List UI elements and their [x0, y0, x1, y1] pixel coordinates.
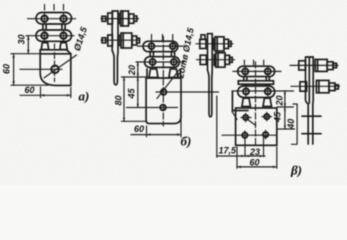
- plate hole a): [51, 66, 59, 74]
- dimension 60 (v, bottom): [237, 147, 277, 168]
- hole B2-2: [171, 59, 177, 65]
- bolt head row2 (side v): [300, 82, 307, 91]
- hole B1-1: [149, 43, 155, 49]
- dimension 60 (a, bottom): [20, 87, 71, 98]
- dimension 45 (b): [137, 77, 139, 108]
- svg-text:45: 45: [272, 111, 282, 123]
- centerline bar B2 / ext for dim 20: [136, 61, 184, 63]
- hole centerline b) upper: [156, 91, 219, 93]
- far nut row1 (side a): [102, 16, 106, 21]
- band edge ticks b): [147, 69, 181, 77]
- dimension 45 (v, right): [284, 107, 286, 129]
- plate v) left tab edge: [232, 91, 248, 110]
- plate hole v) up-left: [243, 115, 248, 120]
- bolt axis 2 (side v): [291, 85, 340, 87]
- strip mid line (side v): [308, 57, 310, 103]
- nut row1 (side b): [224, 39, 229, 48]
- centerline bar A1: [28, 18, 76, 20]
- bolt tip row2 (side v): [335, 85, 338, 89]
- nut left under bar A2: [41, 43, 49, 50]
- bolt tip row1 (side b): [229, 41, 232, 46]
- leader marks v): [232, 111, 256, 125]
- hole A1-2: [60, 16, 66, 22]
- hole C1-2: [265, 68, 271, 74]
- plate a) outline: [40, 50, 71, 86]
- svg-text:20: 20: [127, 65, 137, 76]
- plate hole v) up-right: [264, 114, 269, 119]
- paper noise: [0, 0, 1, 1]
- dimension 20 (b): [137, 62, 139, 77]
- plate hole b) lower: [160, 105, 166, 111]
- washer line in block row2 (side v): [318, 80, 320, 92]
- nut row1 (side v): [327, 62, 333, 70]
- head washer row1 (side b): [201, 35, 205, 40]
- dimension 30 (a, left): [27, 36, 29, 54]
- bolt shanks between bars C: [244, 77, 269, 86]
- dimension 80 (b): [123, 77, 125, 121]
- svg-text:60: 60: [250, 157, 260, 167]
- extension lines b) left: [122, 77, 147, 121]
- break tick 2 (side v): [302, 133, 321, 135]
- dimension 60 (a, left): [13, 54, 15, 85]
- svg-text:20: 20: [274, 95, 284, 106]
- hole ticks bars B: [152, 42, 174, 67]
- washer row1 (side b): [212, 39, 214, 50]
- hole C1-1: [242, 68, 248, 74]
- washer line in block row2: [122, 33, 124, 48]
- svg-text:17,5: 17,5: [219, 146, 238, 156]
- plate centerline vertical b): [162, 37, 164, 127]
- plate strip (side a): [112, 11, 118, 85]
- washer row2 (side b): [213, 55, 215, 66]
- bar B1: [143, 41, 178, 52]
- bolt head row1 (side a): [108, 13, 113, 24]
- hole centerline b) lower: [127, 107, 178, 109]
- bolt head row2 (side a): [108, 35, 113, 46]
- extension lines a) left: [11, 54, 48, 85]
- plate centerline vertical a): [54, 44, 56, 82]
- svg-text:60: 60: [134, 124, 144, 134]
- washer line in block row2 (side b): [217, 53, 219, 67]
- bar block row1 (side a): [121, 11, 129, 26]
- leader to note b): [157, 70, 180, 99]
- lower holes centerline v): [222, 134, 277, 136]
- bar A2 (lower busbar, view a): [36, 30, 72, 41]
- bolt shanks between bars B: [150, 51, 174, 56]
- bar C2: [238, 86, 275, 97]
- bolt tip row2 (side b): [230, 57, 233, 62]
- far nut row2 (side a): [102, 38, 106, 43]
- centerline bar C2 / ext for dim 20: [232, 90, 294, 92]
- bar block row2 (side b): [216, 53, 225, 67]
- bar block row2 (side v): [316, 80, 329, 92]
- bolt shanks between bars A: [43, 25, 65, 30]
- nut right under bar A2: [60, 43, 68, 50]
- nut row2 (side a): [132, 36, 137, 45]
- svg-text:б): б): [181, 134, 192, 149]
- bolt axis 1 (side b): [196, 43, 233, 45]
- svg-text:а): а): [79, 89, 90, 104]
- hole ticks bars A: [45, 14, 64, 41]
- svg-text:30: 30: [17, 34, 27, 44]
- svg-text:23: 23: [249, 147, 260, 157]
- bolt tip row2 (side a): [137, 38, 140, 43]
- washer row1 (side a): [119, 14, 121, 24]
- hole ticks bars C: [245, 67, 267, 96]
- plate v) outline: [236, 108, 277, 145]
- hole centerline horizontal a): [20, 68, 62, 70]
- bar block row1 (side b): [215, 37, 224, 51]
- upper holes centerline ticks v): [241, 116, 272, 119]
- hole A2-1: [41, 33, 47, 39]
- hole B2-1: [150, 59, 156, 65]
- nut row1 (side a): [129, 14, 134, 23]
- plate centerline vertical v): [255, 62, 257, 147]
- washer line in block row1 (side b): [216, 37, 218, 51]
- dimension 17,5 (v, bottom): [217, 96, 265, 157]
- centerline bar A2: [26, 35, 74, 37]
- plate edge strip between bars C: [238, 81, 273, 84]
- plate strip (side v): [306, 57, 314, 144]
- bolt head row2 (side b): [200, 55, 206, 64]
- leader to dia note a): [44, 55, 76, 78]
- dimension 20 (v, right): [277, 91, 295, 129]
- hole C2-1: [243, 88, 249, 94]
- nut row2 (side b): [225, 55, 230, 64]
- break tick 1 (side v): [302, 115, 321, 117]
- bar B2: [145, 57, 180, 68]
- svg-text:80: 80: [114, 95, 124, 105]
- nut right under bar C2: [263, 98, 272, 106]
- bar block row1 (side v): [315, 59, 327, 71]
- bolt head row1 (side v): [299, 61, 306, 70]
- bolt head row1 (side b): [200, 39, 206, 48]
- plate hole v) low-right: [263, 132, 268, 137]
- bolt axis 1 (side a): [101, 18, 139, 20]
- centerline bar B1: [138, 45, 184, 47]
- hole ticks plate v): [245, 112, 267, 139]
- hole A1-1: [41, 16, 47, 22]
- hole B1-2: [170, 43, 176, 49]
- dimension 40 (v, far right): [292, 104, 298, 144]
- dimension 60 (b, bottom): [131, 118, 181, 137]
- hole A2-2: [60, 33, 66, 39]
- svg-text:β): β): [290, 163, 302, 178]
- center ticks above bars B: [152, 35, 173, 41]
- svg-text:60: 60: [2, 64, 12, 74]
- hole C2-2: [265, 88, 271, 94]
- centerline bar C1: [233, 70, 281, 72]
- washer line in block row1 (side v): [317, 59, 319, 71]
- washer line in block row1: [122, 11, 124, 26]
- center ticks above bars C: [244, 60, 263, 65]
- bolt tip row1 (side a): [134, 16, 137, 21]
- plate strip (side b): [208, 34, 213, 117]
- bolt tip row1 (side v): [333, 63, 336, 67]
- bar block row2 (side a): [121, 33, 132, 48]
- center ticks above bars A: [45, 5, 64, 11]
- svg-text:45: 45: [126, 87, 136, 99]
- bolt axis 2 (side b): [197, 59, 235, 61]
- nut left under bar B2: [149, 69, 158, 78]
- washer row2 (side a): [119, 35, 121, 45]
- bar C1: [238, 66, 275, 76]
- svg-text:40: 40: [286, 119, 296, 130]
- plate a) washer step line: [40, 53, 71, 55]
- nut left under bar C2: [242, 98, 251, 106]
- plate hole v) low-left: [242, 133, 247, 138]
- nut right under bar B2: [169, 69, 178, 78]
- plate hole b) upper: [161, 89, 167, 95]
- svg-text:60: 60: [25, 85, 35, 95]
- bolt axis 2 (side a): [101, 39, 140, 41]
- plate b) outline: [146, 78, 181, 124]
- nut row2 (side v): [329, 83, 335, 91]
- bolt axis 1 (side v): [290, 64, 338, 66]
- bar A1 (top busbar, view a): [36, 13, 72, 25]
